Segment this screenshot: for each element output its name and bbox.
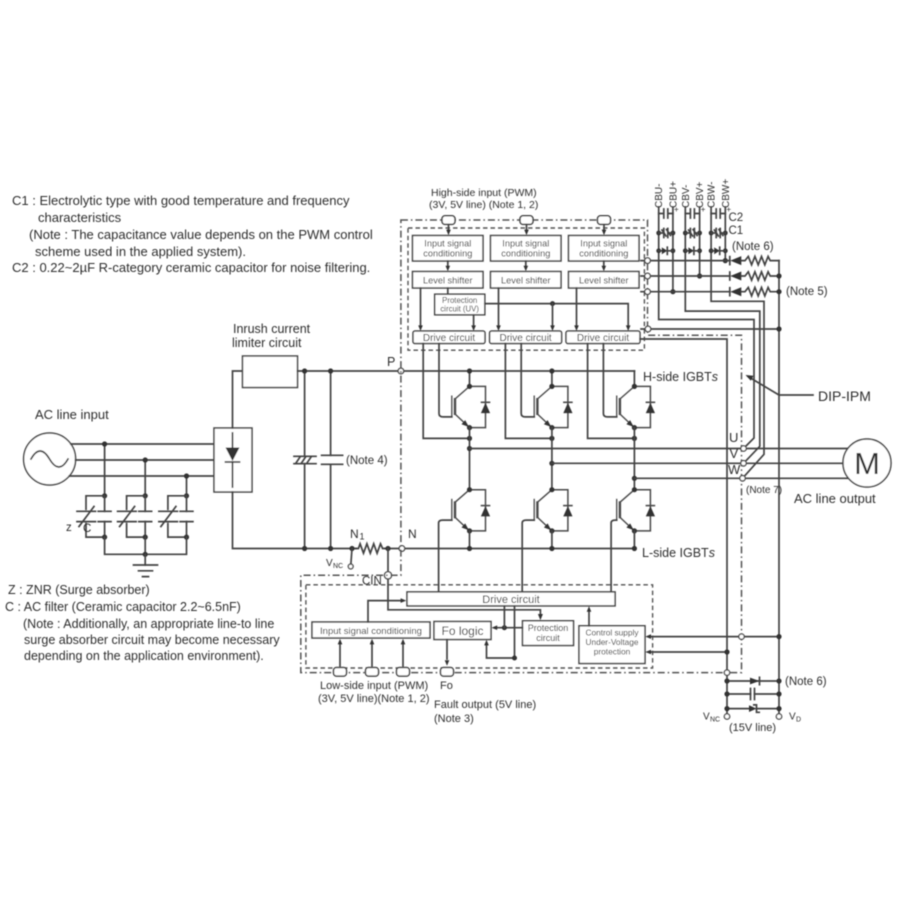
inrush limiter box — [243, 356, 298, 388]
node U pin — [741, 446, 746, 451]
svg-text:Protection: Protection — [528, 623, 569, 633]
emitter return wire H U — [423, 344, 469, 439]
terminal low-side input 2 — [366, 668, 379, 677]
svg-text:surge absorber circuit may bec: surge absorber circuit may become necess… — [24, 633, 280, 647]
filter branch 3 drop — [186, 476, 188, 496]
svg-text:U: U — [729, 430, 738, 445]
wire VB rail V (mid) with bootstrap diode and resistor — [641, 275, 730, 277]
svg-text:M: M — [854, 446, 880, 481]
block drive circuit W (high) — [566, 331, 640, 344]
gate wire L V — [522, 520, 534, 592]
block Fo logic — [434, 622, 491, 640]
block level shifter W — [569, 272, 640, 289]
wire AC line 2 — [76, 459, 214, 461]
svg-text:Drive circuit: Drive circuit — [499, 333, 551, 344]
bootstrap pair W: wire CBW- — [711, 207, 764, 478]
svg-text:Z : ZNR (Surge absorber): Z : ZNR (Surge absorber) — [8, 583, 150, 597]
wire N rail right — [385, 548, 634, 550]
svg-text:Input signal conditioning: Input signal conditioning — [320, 626, 422, 637]
wire L W emitter to N — [633, 531, 635, 549]
svg-text:(Note : Additionally, an appro: (Note : Additionally, an appropriate lin… — [23, 617, 274, 631]
wire ISC to level shifter U — [447, 261, 449, 268]
emitter return wire H W — [588, 344, 635, 439]
block drive circuit (low side) — [407, 592, 615, 606]
transistor H-side IGBT W — [633, 371, 635, 386]
svg-text:C: C — [83, 523, 91, 535]
svg-text:Control supply: Control supply — [585, 628, 639, 638]
terminal Fo output — [441, 668, 454, 677]
svg-text:limiter circuit: limiter circuit — [232, 336, 302, 350]
capacitor C1 (U electrolytic) — [656, 231, 661, 236]
svg-text:z: z — [66, 522, 72, 534]
wire VNC into control supply — [649, 651, 728, 653]
svg-text:1: 1 — [360, 532, 365, 542]
wire L V emitter to N — [551, 531, 553, 549]
wire U output line — [470, 448, 849, 450]
svg-text:Fo logic: Fo logic — [441, 624, 483, 638]
capacitor C2 (U) — [659, 209, 673, 218]
capacitor C2 (W) — [711, 209, 725, 218]
wire ISC to level shifter V — [525, 261, 527, 268]
node W pin — [740, 476, 745, 481]
gate wire L W — [611, 520, 617, 592]
node P pin — [398, 368, 404, 374]
svg-text:C1 : Electrolytic type with go: C1 : Electrolytic type with good tempera… — [12, 193, 350, 208]
wire level shifter 1 to UV protection — [447, 288, 449, 294]
block level shifter V — [491, 272, 562, 289]
svg-text:Under-Voltage: Under-Voltage — [585, 637, 638, 647]
wire CBW+ — [724, 207, 726, 261]
transistor L-side IGBT W — [617, 487, 656, 533]
terminal high-side input 2 — [520, 216, 533, 225]
wire ISC to level shifter W — [603, 261, 605, 268]
wire CBV+ — [699, 207, 701, 276]
wire drive to protection junction — [503, 606, 505, 628]
capacitor C filter 3 — [186, 496, 188, 537]
transistor L-side IGBT V — [534, 487, 573, 533]
svg-text:(Note 3): (Note 3) — [434, 713, 474, 725]
svg-text:V: V — [789, 712, 796, 723]
wire UV protection bus — [485, 304, 628, 328]
block input signal conditioning W — [569, 236, 640, 262]
gate wire H U — [439, 344, 452, 417]
wire control supply to drive — [588, 610, 590, 626]
filter branch 2 drop — [144, 460, 146, 496]
svg-text:C2 : 0.22~2µF R-category ceram: C2 : 0.22~2µF R-category ceramic capacit… — [12, 260, 370, 275]
block protection circuit (UV) — [435, 294, 485, 315]
terminal VNC left — [351, 549, 352, 567]
svg-text:scheme used in the applied sys: scheme used in the applied system). — [35, 244, 246, 259]
wire level shifter to drive V — [498, 288, 500, 328]
svg-text:C2: C2 — [729, 212, 744, 224]
wire VD supply vertical — [778, 261, 780, 716]
svg-text:Level shifter: Level shifter — [423, 275, 473, 285]
node CIN pin — [384, 572, 391, 579]
zener diode (U, Note 6) — [656, 248, 661, 253]
svg-text:C : AC filter (Ceramic capacit: C : AC filter (Ceramic capacitor 2.2~6.5… — [5, 600, 241, 614]
svg-text:protection: protection — [594, 647, 631, 657]
svg-text:(Note 5): (Note 5) — [786, 286, 828, 298]
gate wire H W — [603, 344, 616, 417]
resistor N1 shunt — [356, 544, 385, 553]
terminal low-side input 1 — [334, 668, 347, 677]
svg-text:(Note 6): (Note 6) — [785, 676, 827, 688]
wire UV tap to drive V — [552, 304, 554, 328]
bootstrap pair V: wire CBV- — [685, 207, 760, 463]
wire CBU+ — [672, 207, 674, 292]
block input signal conditioning (low) — [312, 622, 430, 638]
wire L U emitter to N — [469, 531, 471, 549]
zener diode (V, Note 6) — [683, 248, 688, 253]
svg-text:conditioning: conditioning — [579, 249, 628, 259]
wire level shifter to drive U — [420, 288, 422, 328]
block level shifter U — [413, 272, 484, 289]
block drive circuit U (high) — [413, 331, 485, 344]
svg-text:High-side input (PWM): High-side input (PWM) — [431, 187, 537, 199]
svg-text:CBW-: CBW- — [707, 182, 718, 208]
svg-text:depending on the application e: depending on the application environment… — [24, 649, 264, 663]
svg-text:(3V, 5V line)(Note 1, 2): (3V, 5V line)(Note 1, 2) — [318, 693, 429, 705]
wire H U emitter down — [469, 428, 471, 490]
DIP-IPM package outline (dash-dot) — [301, 220, 742, 673]
svg-text:characteristics: characteristics — [38, 210, 122, 225]
smoothing capacitor C-dc electrolytic (Note 4) — [304, 371, 306, 549]
svg-text:Low-side input (PWM): Low-side input (PWM) — [320, 680, 428, 692]
wire H W emitter down — [633, 428, 635, 490]
svg-text:Input signal: Input signal — [580, 239, 627, 249]
svg-text:CIN: CIN — [362, 576, 382, 588]
ZNR Z2 — [127, 496, 146, 537]
terminal VNC bottom — [724, 714, 729, 719]
svg-text:Inrush current: Inrush current — [233, 322, 311, 336]
ZNR Z3 — [168, 496, 187, 537]
svg-text:D: D — [796, 717, 801, 724]
svg-text:DIP-IPM: DIP-IPM — [818, 388, 871, 404]
svg-text:NC: NC — [333, 563, 343, 570]
svg-text:(Note 6): (Note 6) — [732, 241, 774, 253]
svg-text:Fault output (5V line): Fault output (5V line) — [434, 699, 536, 711]
svg-text:AC line input: AC line input — [35, 407, 109, 422]
gate wire L U — [439, 520, 452, 592]
low-side IC dashed box — [306, 585, 653, 668]
note text C1/C2 top-left — [12, 193, 373, 275]
block control supply under-voltage protection — [579, 626, 645, 664]
svg-text:CBV-: CBV- — [681, 185, 692, 208]
bootstrap pair U: wire CBU- — [659, 207, 754, 449]
gate wire H V — [521, 344, 534, 417]
capacitor VNC-VD — [727, 693, 779, 695]
node N pin — [399, 546, 405, 552]
capacitor C filter 2 — [144, 496, 146, 537]
terminal high-side input 3 — [598, 216, 611, 225]
wire VD pin high-side — [641, 328, 779, 330]
svg-text:L-side IGBTs: L-side IGBTs — [642, 546, 715, 560]
svg-text:C1: C1 — [729, 225, 744, 237]
node V pin — [741, 461, 746, 466]
wire H V emitter down — [551, 428, 553, 490]
terminal low-side input 3 — [397, 668, 410, 677]
block protection circuit (low) — [523, 621, 574, 646]
wire CIN sense — [388, 549, 540, 616]
zener VNC-VD — [727, 708, 779, 710]
svg-text:(Note : The capacitance value: (Note : The capacitance value depends on… — [29, 227, 373, 242]
zener diode (W, Note 6) — [709, 248, 714, 253]
wire rectifier bottom to N rail — [233, 492, 357, 549]
node VNC pin on package edge — [724, 670, 729, 675]
svg-text:(15V line): (15V line) — [729, 722, 776, 734]
svg-text:CBU+: CBU+ — [668, 181, 679, 208]
svg-text:W: W — [728, 462, 741, 477]
filter branch 1 drop — [104, 444, 106, 496]
rectifier BR1 — [214, 428, 252, 492]
emitter return wire H V — [505, 344, 552, 439]
svg-text:Input signal: Input signal — [502, 239, 549, 249]
smoothing capacitor C-dc film — [330, 371, 332, 549]
wire ISC-low to drive — [368, 601, 403, 622]
svg-text:Level shifter: Level shifter — [579, 275, 629, 285]
svg-text:CBW+: CBW+ — [721, 179, 732, 208]
motor M — [843, 439, 891, 487]
terminal high-side input 1 — [442, 216, 455, 225]
svg-text:P: P — [387, 355, 395, 369]
wire protection to Fo logic — [495, 627, 523, 629]
block input signal conditioning U — [413, 236, 484, 262]
wire AC line 1 — [71, 443, 214, 445]
svg-text:conditioning: conditioning — [423, 249, 472, 259]
svg-text:CBU-: CBU- — [654, 184, 665, 208]
wire W output line — [634, 477, 848, 479]
high-side IC dashed box — [408, 228, 644, 350]
svg-text:+: + — [701, 205, 706, 214]
diode VNC-VD (Note 6) — [727, 680, 779, 682]
svg-text:Drive circuit: Drive circuit — [577, 333, 629, 344]
svg-text:(3V, 5V line) (Note 1, 2): (3V, 5V line) (Note 1, 2) — [429, 199, 538, 211]
wire drive to Fo logic bottom — [487, 606, 515, 658]
capacitor C1 (V electrolytic) — [683, 231, 688, 236]
capacitor C2 (V) — [685, 209, 699, 218]
svg-text:(Note 4): (Note 4) — [346, 455, 388, 467]
svg-text:V: V — [326, 558, 333, 569]
block drive circuit V (high) — [490, 331, 562, 344]
ground — [144, 554, 146, 565]
svg-text:H-side IGBTs: H-side IGBTs — [643, 370, 718, 384]
svg-text:AC line output: AC line output — [794, 491, 876, 506]
svg-text:N: N — [350, 527, 359, 541]
wire V output line — [552, 462, 844, 464]
svg-text:Input signal: Input signal — [424, 239, 471, 249]
transistor H-side IGBT V — [551, 371, 553, 386]
wire AC line 3 — [69, 475, 214, 477]
svg-text:Drive circuit: Drive circuit — [482, 594, 539, 606]
ZNR Z1 — [86, 496, 105, 537]
capacitor C filter 1 — [104, 496, 106, 537]
svg-text:Drive circuit: Drive circuit — [423, 333, 475, 344]
svg-text:(Note 7): (Note 7) — [746, 485, 782, 496]
svg-text:Level shifter: Level shifter — [501, 275, 551, 285]
wire VD into control supply — [649, 636, 780, 638]
wire VB rail U (top) with bootstrap diode and resistor — [641, 260, 730, 262]
wire UV tap to drive U — [473, 315, 475, 328]
wire rectifier top to inrush — [233, 371, 243, 428]
svg-text:circuit: circuit — [536, 633, 560, 643]
svg-text:V: V — [730, 446, 739, 461]
block input signal conditioning V — [491, 236, 562, 262]
svg-text:V: V — [703, 712, 710, 723]
wire level shifter to drive W — [576, 288, 578, 328]
transistor L-side IGBT U — [452, 487, 491, 533]
svg-text:N: N — [408, 527, 417, 541]
svg-text:NC: NC — [710, 717, 720, 724]
AC source V1 — [24, 433, 76, 485]
svg-text:+: + — [674, 205, 679, 214]
wire filter commons to ground rail — [105, 537, 187, 554]
svg-text:circuit (UV): circuit (UV) — [440, 304, 479, 313]
wire VB rail W (bottom) with bootstrap diode and resistor — [641, 291, 730, 293]
capacitor C1 (W electrolytic) — [709, 231, 714, 236]
wire P rail — [298, 370, 635, 372]
wire high-side COM to low-side — [640, 339, 727, 716]
note text Z/C bottom-left — [5, 583, 280, 663]
svg-text:conditioning: conditioning — [501, 249, 550, 259]
terminal VD bottom — [776, 714, 781, 719]
svg-text:Fo: Fo — [440, 680, 453, 692]
transistor H-side IGBT U — [469, 371, 471, 386]
